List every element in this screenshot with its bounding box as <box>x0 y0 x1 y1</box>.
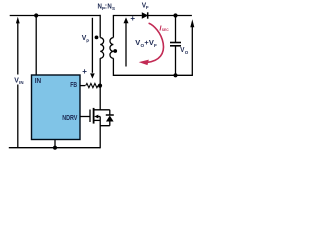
wire: resistor to drain node <box>98 85 100 87</box>
svg-text:NDRV: NDRV <box>62 113 77 122</box>
node: cap bottom junction <box>173 73 177 77</box>
wire: IC ground lead <box>54 140 56 148</box>
node: primary phase dot <box>95 36 99 40</box>
arrow Vo+Vf: secondary loop voltage arrow <box>124 17 129 66</box>
transformer T1 primary winding <box>100 38 103 59</box>
diode D2: body diode <box>100 110 114 126</box>
drain tap <box>94 109 110 111</box>
svg-text:F: F <box>146 5 149 10</box>
wire: IN drop from rail to IC <box>35 16 37 76</box>
wire: drain from winding bottom <box>99 58 101 110</box>
wire: FB pin lead <box>80 85 85 87</box>
svg-text:S: S <box>112 6 115 11</box>
label Vp <box>82 33 90 43</box>
label Vo (output cap) <box>180 45 188 55</box>
node: cap top junction <box>173 13 177 17</box>
node A: rail junction to IN <box>34 13 38 17</box>
svg-text:SEC: SEC <box>162 27 169 32</box>
arrow Isec: secondary current loop (red) <box>139 23 164 65</box>
svg-text:+: + <box>130 14 135 23</box>
svg-text:F: F <box>154 43 157 48</box>
transformer T1 secondary winding <box>110 38 113 59</box>
resistor R1: FB resistor <box>86 83 98 87</box>
source tap <box>94 119 101 121</box>
svg-text:+: + <box>82 67 87 76</box>
wire: rail diode cathode to right end <box>148 15 192 17</box>
label Isec <box>159 23 168 32</box>
label Np:Ns <box>98 4 116 11</box>
node: secondary phase dot <box>113 49 117 53</box>
svg-text:IN: IN <box>35 76 41 85</box>
svg-text:FB: FB <box>70 80 77 89</box>
diode D1: output rectifier VF <box>142 12 148 18</box>
svg-text:O: O <box>185 50 189 55</box>
wire: NDRV gate lead <box>80 116 90 118</box>
middle tap and bulk tie <box>97 116 101 118</box>
node: IC ground junction <box>53 146 57 150</box>
wire: MOSFET source down to rail <box>99 117 101 149</box>
label Vo+Vf <box>135 38 157 48</box>
transistor Q1: NMOS with body diode <box>80 108 110 124</box>
arrow into channel <box>94 115 98 119</box>
gate bar <box>89 110 91 123</box>
arrow Vin: measurement arrow <box>16 17 20 148</box>
op-amp U1: controller IC box <box>32 75 81 140</box>
wire: bottom primary rail <box>9 147 100 149</box>
svg-text:P: P <box>86 39 89 44</box>
wire: secondary top lead and rail to diode <box>113 16 141 38</box>
label VF <box>142 1 149 11</box>
label Vin <box>13 75 26 86</box>
capacitor C1: output cap <box>170 16 181 76</box>
wire: top primary rail <box>9 15 193 149</box>
channel bar <box>93 108 95 124</box>
svg-text:IN: IN <box>19 80 23 85</box>
wire: primary vertical (winding top lead) <box>99 15 101 38</box>
arrow Vp: primary voltage arrow (down) <box>90 18 95 79</box>
node: FB junction on drain line <box>98 84 102 88</box>
wire: secondary bottom lead and bottom rail <box>113 58 192 75</box>
arrow Vo: output voltage arrow <box>190 19 194 75</box>
